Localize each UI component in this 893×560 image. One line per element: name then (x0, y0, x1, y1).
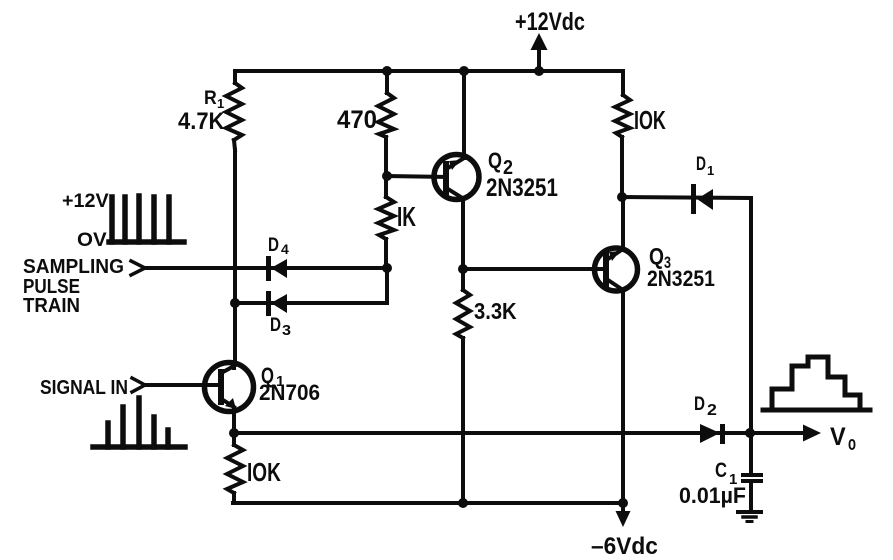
wire Q1 emitter down to 10K (232, 433, 236, 445)
power -6Vdc arrow (616, 503, 631, 527)
diode D1 (691, 184, 713, 214)
svg-text:D: D (270, 313, 281, 335)
node top rail 470 junction (382, 66, 392, 76)
transistor Q3 (595, 248, 638, 291)
svg-text:V: V (830, 423, 846, 451)
node D1 junction (617, 192, 627, 202)
wire 3.3K bottom to bottom rail (461, 338, 465, 503)
wire Q1 emitter to output line (232, 408, 236, 433)
transistor Q2 (434, 155, 479, 200)
svg-text:2N706: 2N706 (259, 380, 320, 405)
svg-text:TRAIN: TRAIN (23, 295, 80, 317)
node top rail Q2 junction (459, 66, 469, 76)
svg-text:3.3K: 3.3K (474, 298, 517, 325)
diode D3 (266, 291, 287, 316)
wire 10K bottom lead to bottom rail (232, 493, 236, 503)
wire 470 bottom to 1K top (384, 137, 388, 197)
wire Q3 emitter from D1 junction (621, 197, 625, 247)
wire D4 junction down to D3 line (385, 268, 389, 303)
resistor R1 (226, 71, 242, 150)
waveform signal in (93, 398, 185, 447)
wire 1K bottom to D4 junction (384, 239, 388, 268)
node bottom rail -6V junction (618, 498, 628, 508)
svg-text:IK: IK (397, 201, 417, 233)
power +12Vdc arrow (531, 33, 548, 71)
wire 10K bottom to D1 junction (620, 137, 624, 197)
svg-text:R: R (204, 86, 217, 108)
svg-text:+12Vdc: +12Vdc (515, 8, 585, 36)
svg-text:4: 4 (281, 241, 289, 257)
wire D1 line and right column (622, 197, 751, 433)
wire Q2 base (387, 176, 447, 177)
waveform output staircase (763, 357, 870, 410)
waveform sampling pulse train (109, 196, 184, 242)
svg-text:2: 2 (707, 401, 717, 419)
svg-text:0.01µF: 0.01µF (679, 483, 746, 508)
svg-text:4.7K: 4.7K (178, 107, 225, 134)
svg-text:Q: Q (649, 244, 664, 269)
svg-text:1: 1 (707, 163, 714, 178)
node D2 output junction (745, 428, 755, 438)
svg-text:3: 3 (282, 323, 291, 339)
svg-text:PULSE: PULSE (23, 275, 80, 298)
capacitor C1 (743, 475, 761, 481)
svg-text:C: C (715, 459, 727, 482)
svg-text:2N3251: 2N3251 (647, 267, 715, 291)
node bottom rail 3.3K junction (458, 498, 468, 508)
arrow signal input (132, 378, 145, 392)
node Q2 collector junction (458, 264, 468, 274)
svg-text:IOK: IOK (634, 106, 666, 135)
diode D4 (266, 256, 287, 281)
svg-text:D: D (268, 233, 279, 255)
wire top rail right corner down to 10K (621, 71, 625, 95)
resistor 10K top (615, 95, 630, 137)
node top rail supply junction (534, 66, 544, 76)
svg-text:470: 470 (337, 107, 377, 135)
svg-text:IOK: IOK (247, 457, 281, 487)
wire D3 line (235, 301, 387, 305)
wire Q3 collector down to bottom rail (621, 291, 625, 503)
node Q2 base tap (382, 171, 392, 181)
node D3 junction (230, 298, 240, 308)
resistor 10K bottom (227, 445, 243, 493)
wire signal in (145, 383, 221, 387)
wire sampling input to D4 junction (145, 266, 387, 270)
node Q1 emitter junction (229, 428, 239, 438)
wire output junction down to C1 (749, 433, 753, 475)
wire left column (R1 bottom to Q1 collector) (233, 150, 237, 363)
resistor 3.3K (456, 269, 470, 338)
svg-text:–6Vdc: –6Vdc (591, 532, 658, 559)
resistor 1K (378, 197, 394, 239)
wire Q1 collector stub (232, 363, 236, 368)
wire C1 bottom to ground (749, 481, 753, 510)
svg-text:SIGNAL IN: SIGNAL IN (40, 376, 128, 398)
arrow sampling input (131, 261, 145, 275)
wire bottom rail (233, 501, 623, 505)
svg-text:2N3251: 2N3251 (486, 173, 558, 201)
svg-text:D: D (696, 153, 706, 175)
resistor 470 (378, 71, 394, 137)
svg-text:D: D (694, 392, 705, 414)
svg-text:Q: Q (488, 149, 502, 173)
ground (738, 512, 761, 522)
svg-text:+12V: +12V (62, 190, 109, 212)
arrow output Vo (803, 425, 821, 442)
wire output signal line (234, 431, 806, 435)
diode D2 (700, 424, 725, 444)
wire top supply rail (235, 69, 623, 73)
svg-text:OV: OV (77, 230, 107, 251)
wire Q2 emitter column from rail (462, 71, 466, 158)
wire Q2 collector junction to Q3 base (463, 267, 607, 271)
node D4 junction (382, 263, 392, 273)
svg-text:o: o (848, 432, 856, 454)
wire Q2 collector down to junction (461, 200, 465, 269)
transistor Q1 (205, 363, 254, 412)
